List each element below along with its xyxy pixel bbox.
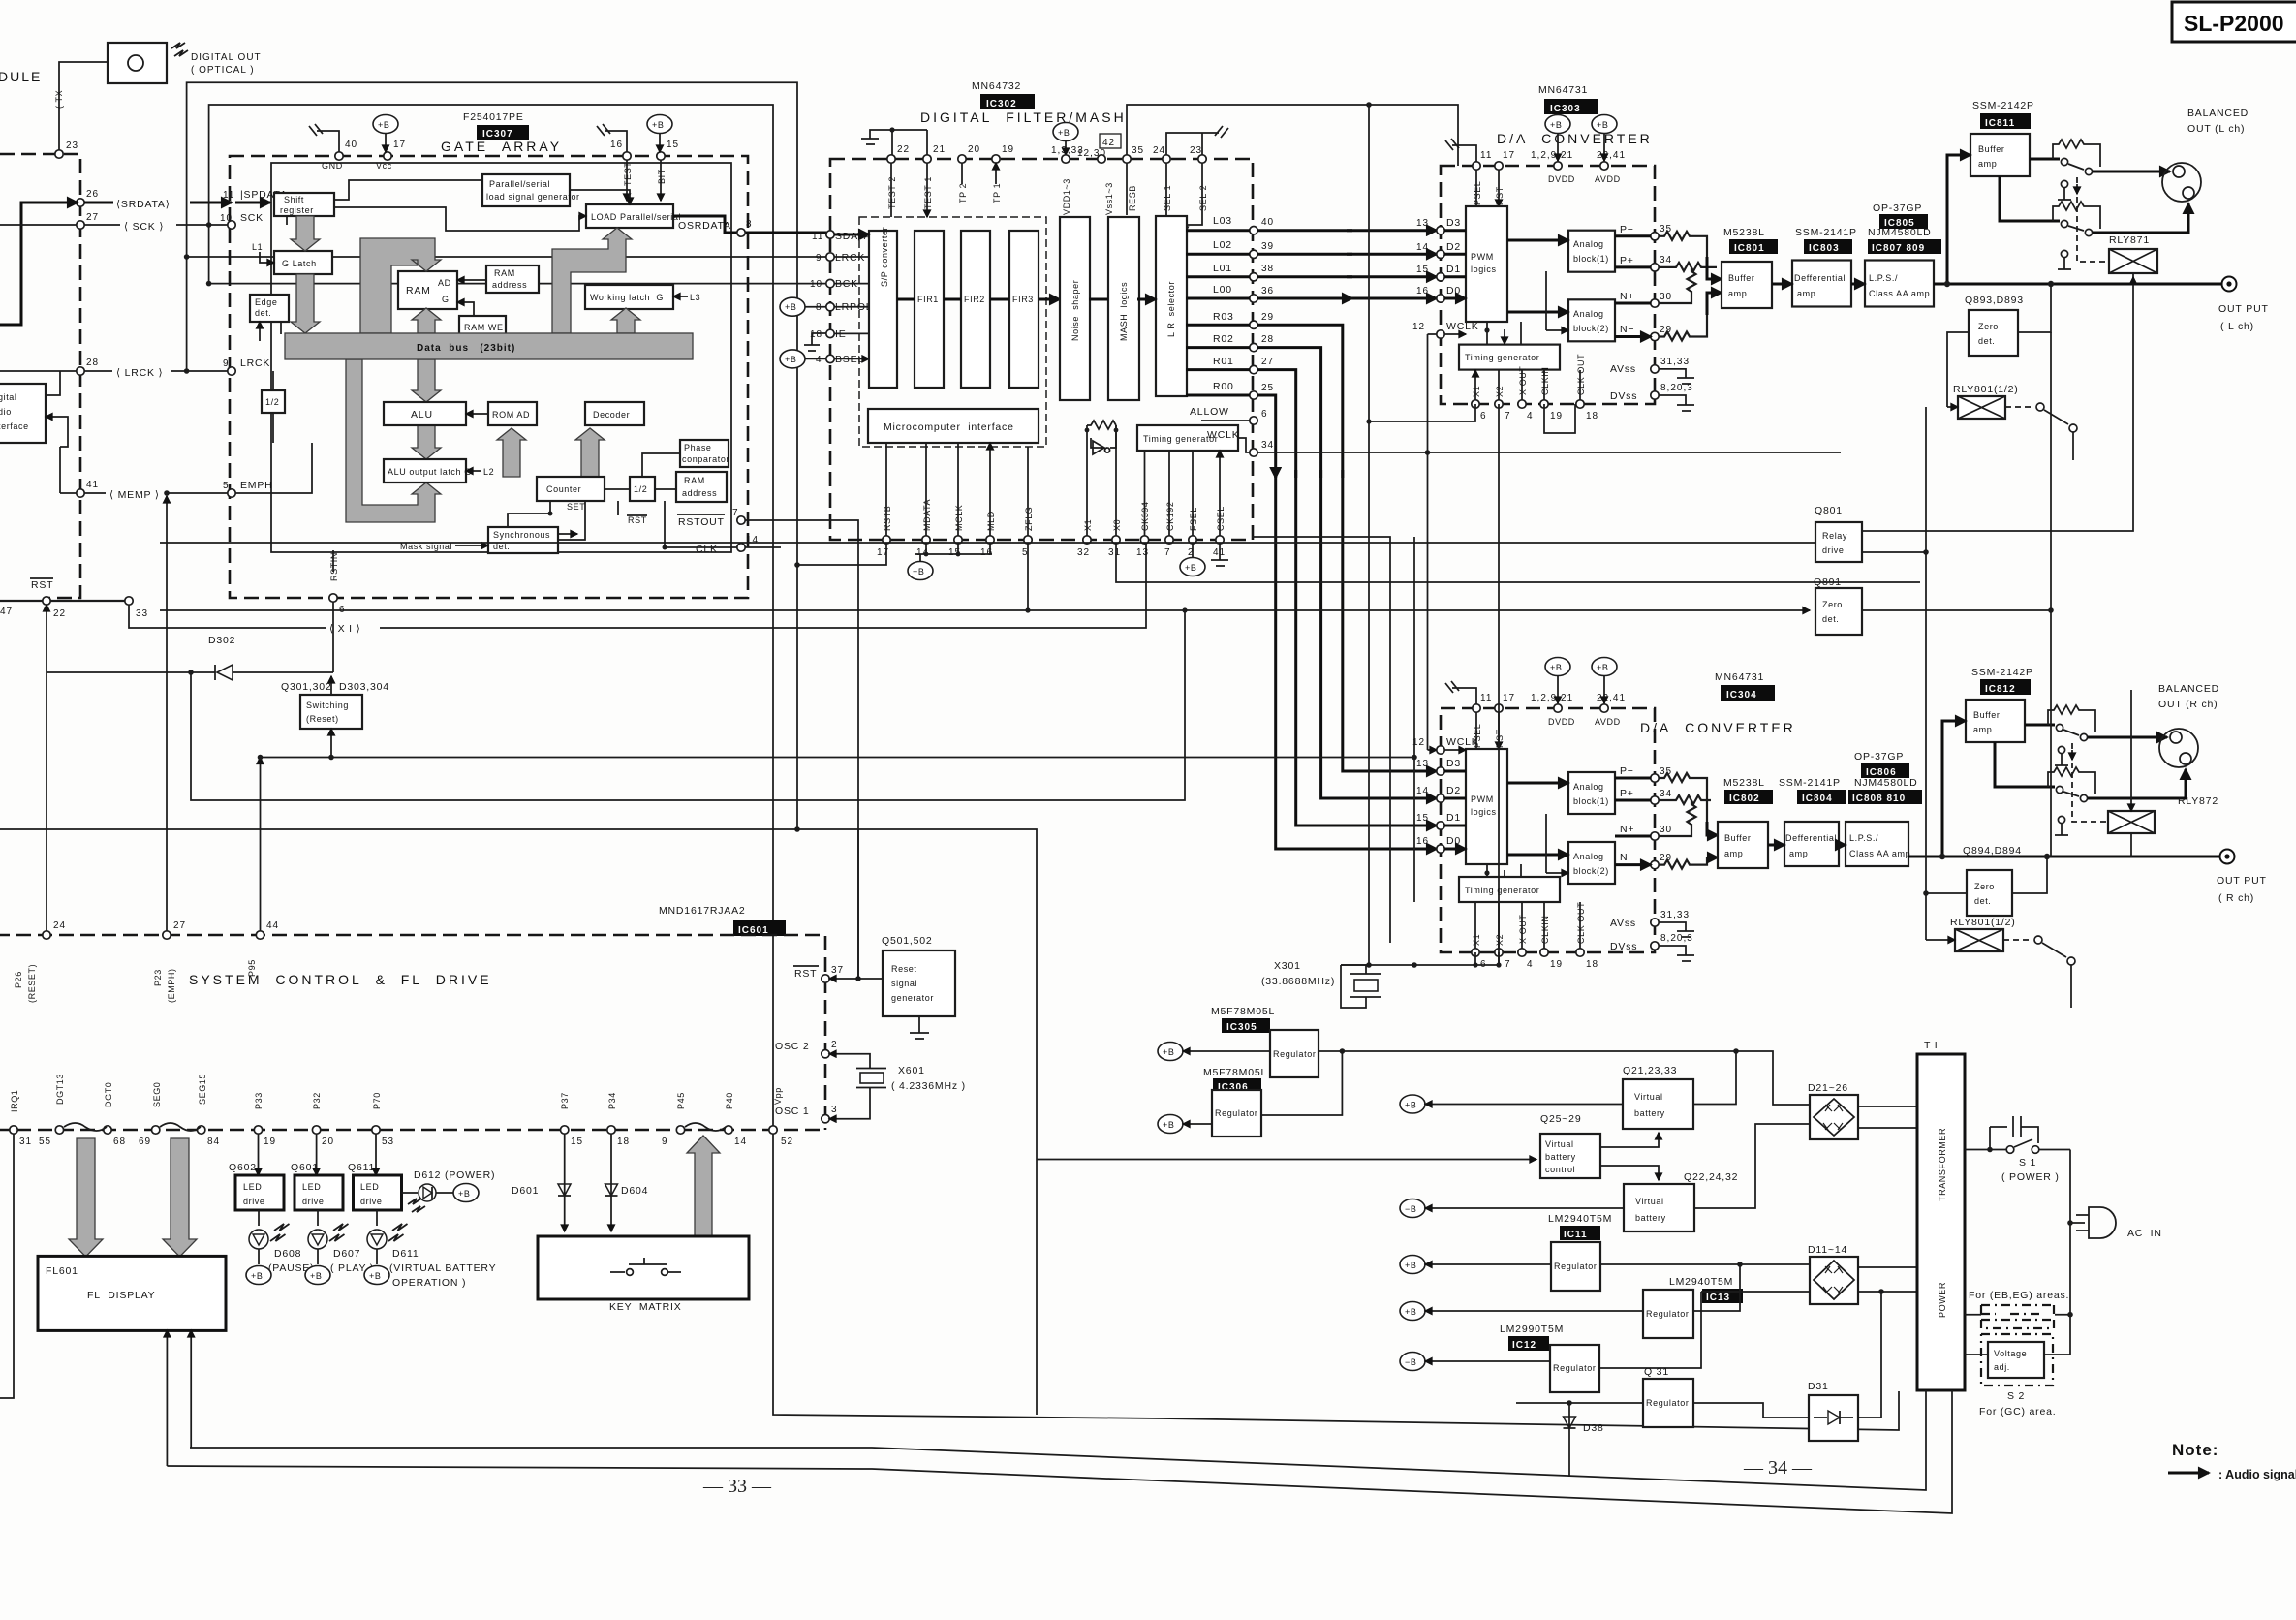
svg-text:FIR1: FIR1 <box>917 295 939 304</box>
svg-text:DIGITAL FILTER/MASH: DIGITAL FILTER/MASH <box>920 109 1127 125</box>
svg-text:P37: P37 <box>560 1092 570 1109</box>
wire from RST junction up <box>857 829 859 979</box>
svg-text:OSC 2: OSC 2 <box>775 1041 810 1052</box>
IC11 out to junction <box>1600 1263 1810 1265</box>
svg-text:Defferential: Defferential <box>1785 833 1837 843</box>
data bus bar <box>285 333 693 359</box>
ALU <box>384 402 466 425</box>
svg-text:LM2940T5M: LM2940T5M <box>1669 1276 1733 1288</box>
wire (X1) from pin 33 <box>129 540 1146 628</box>
svg-text:IC801: IC801 <box>1734 243 1765 254</box>
svg-text:IC303: IC303 <box>1550 104 1581 114</box>
svg-text:+B: +B <box>1550 120 1562 130</box>
svg-text:+B: +B <box>1550 663 1562 672</box>
buffer amp IC801 <box>1722 262 1772 308</box>
audio line L to output <box>1934 283 2221 286</box>
svg-text:Buffer: Buffer <box>1728 273 1754 283</box>
wire vertical feed 1435 <box>1252 537 1390 943</box>
svg-text:Counter: Counter <box>546 484 581 494</box>
svg-text:Q801: Q801 <box>1815 505 1843 516</box>
+B into IC305 <box>1158 1043 1183 1061</box>
svg-text:20: 20 <box>968 144 980 155</box>
svg-text:R01: R01 <box>1213 356 1234 367</box>
svg-text:AD: AD <box>438 278 451 288</box>
X0 wire right <box>1116 544 1920 582</box>
svg-text:L03: L03 <box>1213 215 1232 227</box>
wire rail into bridge D21 <box>1736 1051 1810 1105</box>
svg-text:NJM4580LD: NJM4580LD <box>1854 777 1918 789</box>
svg-text:14: 14 <box>1416 242 1429 253</box>
wire LRCK riser to top line T1 <box>187 82 797 829</box>
svg-text:P23: P23 <box>153 969 163 986</box>
svg-text:68: 68 <box>113 1137 126 1147</box>
svg-text:IC804: IC804 <box>1802 794 1833 804</box>
svg-text:X301: X301 <box>1274 960 1301 972</box>
counter <box>537 477 605 501</box>
svg-text:17: 17 <box>393 140 406 150</box>
svg-text:AVss: AVss <box>1610 918 1636 929</box>
svg-text:Analog: Analog <box>1573 782 1604 792</box>
MASH logics <box>1108 217 1139 400</box>
VB outputs to right <box>1693 1051 1736 1105</box>
svg-text:16: 16 <box>980 547 993 558</box>
IC306 output joins <box>1261 1051 1342 1115</box>
svg-text:D2: D2 <box>1446 785 1461 796</box>
svg-text:Zero: Zero <box>1822 600 1843 609</box>
svg-text:M5238L: M5238L <box>1723 777 1765 789</box>
wires PWM to analog blocks <box>1507 239 1568 242</box>
svg-text:19: 19 <box>264 1137 276 1147</box>
svg-text:D21~26: D21~26 <box>1808 1082 1848 1094</box>
svg-text:X1: X1 <box>1472 386 1481 397</box>
svg-text:D607: D607 <box>333 1248 360 1260</box>
svg-text:37: 37 <box>831 965 844 976</box>
balanced R network <box>2025 724 2055 727</box>
svg-text:38: 38 <box>1261 264 1274 274</box>
svg-text:6: 6 <box>1261 409 1268 420</box>
1/2 box right <box>630 477 655 501</box>
svg-text:31,33: 31,33 <box>1660 910 1690 920</box>
svg-text:4: 4 <box>816 355 822 365</box>
svg-text:P40: P40 <box>725 1092 734 1109</box>
ground at pin 16 <box>597 124 627 152</box>
wires input pins to S/P converter <box>834 257 869 358</box>
wire EMPH into array <box>235 443 312 493</box>
svg-text:11: 11 <box>1480 150 1492 161</box>
svg-text:DVDD: DVDD <box>1548 174 1575 184</box>
svg-text:POWER: POWER <box>1938 1282 1947 1318</box>
svg-text:Regulator: Regulator <box>1554 1262 1597 1271</box>
svg-text:−B: −B <box>1405 1204 1416 1214</box>
svg-text:— 33 —: — 33 — <box>702 1476 772 1497</box>
svg-text:+B: +B <box>1185 563 1196 573</box>
svg-text:PWM: PWM <box>1471 794 1494 804</box>
top pins <box>1473 704 1480 712</box>
wire IC12 via to bridge lower <box>1701 1291 1810 1293</box>
svg-text:L1: L1 <box>252 242 263 252</box>
wire SRDATA thick from interface up to row <box>0 202 60 325</box>
svg-text:DGT0: DGT0 <box>104 1082 113 1107</box>
svg-text:IC802: IC802 <box>1729 794 1760 804</box>
svg-text:7: 7 <box>1164 547 1171 558</box>
svg-text:47: 47 <box>0 607 13 617</box>
svg-text:DVss: DVss <box>1610 941 1637 952</box>
IC13 out joins IC11 rail <box>1693 1264 1740 1311</box>
svg-text:T I: T I <box>1924 1040 1938 1051</box>
svg-text:Q893,D893: Q893,D893 <box>1965 295 2024 306</box>
svg-text:F254017PE: F254017PE <box>463 111 524 123</box>
svg-text:L R selector: L R selector <box>1166 281 1176 337</box>
svg-text:P34: P34 <box>607 1092 617 1109</box>
transformer to voltage adj <box>1965 1354 1988 1355</box>
RST overline label <box>30 578 53 591</box>
wire RST row at module bottom <box>0 600 129 602</box>
svg-text:logics: logics <box>1471 265 1497 274</box>
gray arrow RAM-bus vertical <box>412 308 441 333</box>
svg-text:13: 13 <box>1416 759 1429 769</box>
synchronous det <box>488 527 558 553</box>
svg-text:CLKIN: CLKIN <box>1540 915 1550 944</box>
gray arrow bus->LOAD loop <box>552 228 632 333</box>
svg-text:S 2: S 2 <box>2007 1390 2025 1402</box>
svg-text:15: 15 <box>667 140 679 150</box>
svg-text:SSM-2141P: SSM-2141P <box>1795 227 1857 238</box>
wire IC304 X1 X2 to crystal bus <box>1475 952 1499 965</box>
parallel/serial load signal generator <box>482 174 580 206</box>
svg-text:36: 36 <box>1261 286 1274 296</box>
-B oval IC12 <box>1400 1353 1425 1371</box>
svg-text:RSTOUT: RSTOUT <box>678 516 725 528</box>
svg-text:MASH logics: MASH logics <box>1119 282 1129 341</box>
svg-text:22,41: 22,41 <box>1597 150 1626 161</box>
resistor network to buffer R <box>1659 773 1707 822</box>
pin 44 P95 <box>256 931 264 939</box>
svg-text:OUT PUT: OUT PUT <box>2217 875 2267 887</box>
svg-text:Switching: Switching <box>306 701 349 710</box>
svg-text:MND1617RJAA2: MND1617RJAA2 <box>659 905 746 917</box>
svg-text:17: 17 <box>877 547 889 558</box>
svg-text:Zero: Zero <box>1974 882 1995 891</box>
svg-text:D611: D611 <box>392 1248 419 1260</box>
svg-text:TEST 2: TEST 2 <box>887 176 897 209</box>
node 23 <box>55 150 63 158</box>
svg-text:1,2,9,21: 1,2,9,21 <box>1531 150 1573 161</box>
wire into relay drive from left <box>160 542 1815 544</box>
svg-text:35: 35 <box>1132 145 1144 156</box>
svg-text:( OPTICAL ): ( OPTICAL ) <box>191 65 255 76</box>
svg-text:WCLK: WCLK <box>1446 736 1479 748</box>
svg-text:8: 8 <box>746 219 753 230</box>
control to VB2 <box>1600 1166 1659 1180</box>
svg-text:L3: L3 <box>690 293 700 302</box>
svg-text:M5F78M05L: M5F78M05L <box>1211 1006 1275 1017</box>
svg-text:TEST 1: TEST 1 <box>923 176 933 209</box>
svg-text:P+: P+ <box>1620 788 1634 799</box>
pin 22 <box>43 597 50 605</box>
+B oval Q21 line <box>1400 1095 1425 1113</box>
gray arrow to FL (DGT) <box>69 1138 103 1257</box>
pin 24 P26 <box>43 931 50 939</box>
svg-text:Phase: Phase <box>684 443 712 452</box>
bottom pins <box>1472 949 1479 956</box>
svg-text:11: 11 <box>812 232 823 242</box>
svg-text:+B: +B <box>913 567 924 576</box>
svg-text:( R ch): ( R ch) <box>2218 892 2254 904</box>
OSRDATA output <box>673 216 826 233</box>
+B over VDD <box>1053 123 1078 156</box>
svg-text:D38: D38 <box>1583 1422 1604 1434</box>
svg-text:D3: D3 <box>1446 758 1461 769</box>
svg-text:19: 19 <box>1550 411 1563 421</box>
svg-text:DVDD: DVDD <box>1548 717 1575 727</box>
svg-text:+B: +B <box>785 355 796 364</box>
AC plug <box>2070 1150 2085 1224</box>
svg-text:Voltage: Voltage <box>1994 1349 2027 1358</box>
svg-text:Q21,23,33: Q21,23,33 <box>1623 1065 1677 1076</box>
svg-text:30: 30 <box>1660 292 1672 302</box>
PWM logics box <box>1466 749 1507 864</box>
wire D302 line to RSTIN <box>332 602 334 672</box>
differential amp IC803 <box>1792 261 1851 307</box>
LED D608 <box>258 1210 260 1226</box>
svg-text:19: 19 <box>1002 144 1014 155</box>
capacitor above S1 <box>1990 1116 2038 1143</box>
svg-text:S/P converter: S/P converter <box>880 227 889 287</box>
svg-text:FIR2: FIR2 <box>964 295 985 304</box>
RAM address right <box>676 472 727 502</box>
long line y856 <box>0 829 1037 1160</box>
svg-text:G Latch: G Latch <box>282 259 317 268</box>
svg-text:( TX: ( TX <box>54 90 64 109</box>
FL601 FL display box <box>38 1256 226 1330</box>
svg-text:SDATA: SDATA <box>835 231 871 242</box>
FIR2 <box>961 231 990 388</box>
pin 28 LRCK <box>77 367 84 375</box>
timing generator IC302 <box>1137 425 1238 451</box>
svg-text:24: 24 <box>1153 145 1165 156</box>
svg-text:D608: D608 <box>274 1248 301 1260</box>
svg-text:SEL 2: SEL 2 <box>1198 185 1208 211</box>
svg-text:RLY872: RLY872 <box>2178 795 2218 807</box>
analog block 1 <box>1568 772 1615 814</box>
svg-text:26: 26 <box>86 189 99 200</box>
transformer to EE/EG jumpers <box>1965 1314 2070 1316</box>
svg-text:P32: P32 <box>312 1092 322 1109</box>
svg-text:gital: gital <box>0 392 17 402</box>
X301 wires <box>1341 965 1366 1008</box>
pin 16 TEST <box>623 152 631 160</box>
wire LRCK row <box>0 370 232 372</box>
svg-text:D1: D1 <box>1446 264 1461 275</box>
LED D607 <box>317 1210 319 1226</box>
svg-text:FSEL: FSEL <box>1189 507 1198 531</box>
svg-text:15: 15 <box>1416 813 1429 824</box>
wire edge det taps <box>260 322 281 341</box>
wire LRCK feed to IC302 <box>187 256 830 258</box>
edge det <box>250 295 289 322</box>
wire timing gen to WCLK pin <box>1238 438 1251 452</box>
svg-text:address: address <box>492 280 527 290</box>
svg-text:SL-P2000: SL-P2000 <box>2184 11 2284 36</box>
bottom pins <box>1472 400 1479 408</box>
svg-text:⟨SRDATA⟩: ⟨SRDATA⟩ <box>116 199 171 210</box>
svg-text:−B: −B <box>1405 1357 1416 1367</box>
svg-text:Relay: Relay <box>1822 531 1847 541</box>
svg-text:det.: det. <box>1822 614 1839 624</box>
bottom long wires <box>190 1390 1926 1490</box>
wire 1/2 to phase comparator <box>642 453 680 477</box>
S/P converter <box>869 227 897 388</box>
svg-text:17: 17 <box>1503 150 1515 161</box>
svg-text:+B: +B <box>1405 1261 1416 1270</box>
svg-text:Q22,24,32: Q22,24,32 <box>1684 1171 1738 1183</box>
ROM AD <box>488 402 537 425</box>
gray arrow glatch->bus <box>291 274 320 333</box>
svg-text:SCK: SCK <box>240 212 264 224</box>
svg-text:L.P.S./: L.P.S./ <box>1869 273 1898 283</box>
vertical 2117 tap L audio to R audio <box>2050 332 2052 857</box>
svg-text:RAM WE: RAM WE <box>464 323 504 332</box>
svg-text:LRCK: LRCK <box>835 252 865 264</box>
svg-text:FIR3: FIR3 <box>1012 295 1034 304</box>
buffer amp IC802 <box>1718 822 1768 868</box>
svg-text:+B: +B <box>251 1271 263 1281</box>
svg-text:X1: X1 <box>1472 934 1481 946</box>
svg-text:69: 69 <box>139 1137 151 1147</box>
svg-text:MN64731: MN64731 <box>1538 84 1588 96</box>
svg-text:L02: L02 <box>1213 239 1232 251</box>
svg-text:Virtual: Virtual <box>1635 1197 1664 1206</box>
svg-text:TRANSFORMER: TRANSFORMER <box>1938 1128 1947 1201</box>
svg-text:P−: P− <box>1620 765 1634 777</box>
svg-text:12: 12 <box>1412 322 1425 332</box>
svg-text:logics: logics <box>1471 807 1497 817</box>
svg-text:30: 30 <box>1660 825 1672 835</box>
svg-text:1,2,9,21: 1,2,9,21 <box>1531 693 1573 703</box>
svg-text:13: 13 <box>1416 218 1429 229</box>
svg-text:Note:: Note: <box>2172 1441 2218 1459</box>
svg-text:18: 18 <box>1586 411 1598 421</box>
svg-text:RST: RST <box>794 968 817 980</box>
svg-text:P45: P45 <box>676 1092 686 1109</box>
svg-text:14: 14 <box>734 1137 747 1147</box>
svg-text:7: 7 <box>1505 959 1511 970</box>
svg-text:22: 22 <box>53 608 66 619</box>
svg-text:R00: R00 <box>1213 381 1234 392</box>
differential amp IC804 <box>1784 822 1839 866</box>
svg-text:P+: P+ <box>1620 255 1634 266</box>
wire CLKIN chain <box>1544 404 1575 433</box>
wire IC303 X2 run down <box>1498 404 1500 965</box>
IC307 dashed boundary <box>230 156 748 598</box>
ground under CSEL <box>1211 544 1228 566</box>
svg-text:Regulator: Regulator <box>1215 1108 1257 1118</box>
svg-text:+B: +B <box>1405 1101 1416 1110</box>
IC601 dashed boundary <box>0 935 825 1130</box>
riser to IC812 <box>1942 721 1966 857</box>
key matrix box <box>538 1236 749 1299</box>
svg-text:terface: terface <box>0 421 29 431</box>
svg-text:Regulator: Regulator <box>1646 1309 1689 1319</box>
svg-text:7: 7 <box>1505 411 1511 421</box>
svg-text:(33.8688MHz): (33.8688MHz) <box>1261 976 1335 987</box>
svg-text:( 4.2336MHz ): ( 4.2336MHz ) <box>891 1080 966 1092</box>
svg-text:39: 39 <box>1261 241 1274 252</box>
wire relay drive lower output <box>1862 552 1926 893</box>
L data wires to IC303 <box>1257 229 1437 232</box>
svg-text:block(2): block(2) <box>1573 324 1609 333</box>
svg-text:PWM: PWM <box>1471 252 1494 262</box>
regulator IC11 <box>1551 1242 1600 1291</box>
svg-text:⟨ LRCK ⟩: ⟨ LRCK ⟩ <box>116 367 163 379</box>
svg-text:20: 20 <box>322 1137 334 1147</box>
resistor network to buffer <box>1659 232 1707 257</box>
wire RESB top run <box>1127 105 1458 166</box>
R data wires down to IC304 <box>1257 325 1437 771</box>
svg-text:Defferential: Defferential <box>1794 273 1846 283</box>
LOAD parallel/serial <box>586 204 681 228</box>
-B oval Q22 line <box>1400 1199 1425 1218</box>
svg-text:16: 16 <box>610 140 623 150</box>
svg-text:CK192: CK192 <box>1165 501 1175 531</box>
+B AVDD <box>1592 115 1617 162</box>
+B DVDD <box>1545 115 1570 162</box>
transformer to S1 <box>1965 1127 1990 1150</box>
svg-text:Class AA amp: Class AA amp <box>1869 289 1930 298</box>
svg-text:21: 21 <box>933 144 946 155</box>
pin 33 <box>125 597 133 605</box>
RST pin 37 <box>793 966 819 980</box>
svg-text:D302: D302 <box>208 635 235 646</box>
wire BCK feed to IC302 <box>209 283 830 285</box>
svg-text:CLK OUT: CLK OUT <box>1576 354 1586 395</box>
svg-text:34: 34 <box>1660 255 1672 265</box>
svg-text:16: 16 <box>1416 836 1429 847</box>
svg-text:IC302: IC302 <box>986 99 1017 109</box>
svg-text:RAM: RAM <box>684 476 705 485</box>
ground bracket over pins 22,21 <box>861 130 927 155</box>
svg-text:X0: X0 <box>1112 519 1122 531</box>
bottom pins right group <box>1083 536 1091 544</box>
svg-text:Synchronous: Synchronous <box>493 530 550 540</box>
pin 15 BIT <box>657 152 665 160</box>
svg-text:BALANCED: BALANCED <box>2187 108 2249 119</box>
svg-text:address: address <box>682 488 717 498</box>
+B oval IC13 <box>1400 1302 1425 1321</box>
svg-text:GATE ARRAY: GATE ARRAY <box>441 139 562 154</box>
svg-text:register: register <box>280 205 314 215</box>
svg-text:22: 22 <box>897 144 910 155</box>
svg-text:Q611: Q611 <box>348 1162 375 1173</box>
wire branch to RLY801 L <box>1925 407 1927 552</box>
wire SCK riser to top line T2 <box>209 105 1899 1430</box>
wire vertical feed 1460 <box>1413 537 1415 902</box>
svg-text:+B: +B <box>1058 128 1070 138</box>
svg-text:ALLOW: ALLOW <box>1190 406 1229 418</box>
Q31 out to D31 <box>1693 1403 1809 1417</box>
gray arrow bus->working latch <box>611 308 640 333</box>
svg-text:Timing generator: Timing generator <box>1465 886 1539 895</box>
svg-text:block(1): block(1) <box>1573 796 1609 806</box>
svg-text:24: 24 <box>53 920 66 931</box>
wire zero det Q891 output <box>1862 609 2051 611</box>
svg-text:amp: amp <box>1973 725 1992 734</box>
svg-text:AVDD: AVDD <box>1595 174 1621 184</box>
ground bracket top right <box>1166 126 1228 155</box>
svg-text:BALANCED: BALANCED <box>2158 683 2219 695</box>
svg-text:RSTIN: RSTIN <box>329 552 339 581</box>
svg-text:+B: +B <box>652 120 664 130</box>
